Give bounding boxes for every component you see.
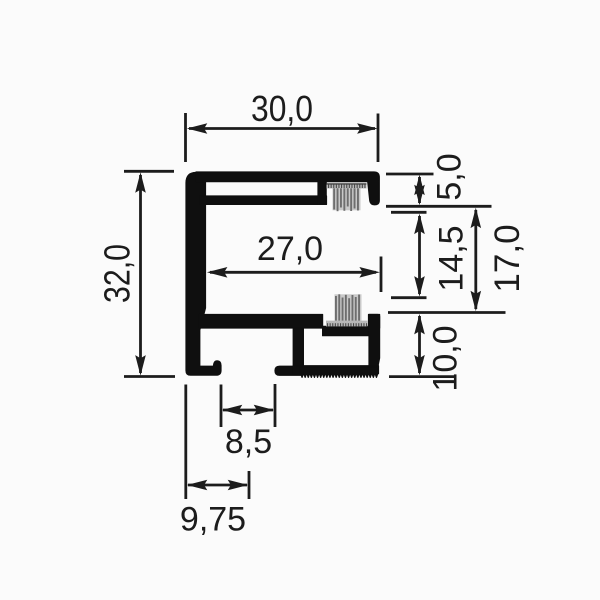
8,5 bbox=[220, 385, 223, 428]
lower serrated spring insert bbox=[326, 294, 368, 326]
17,0 bbox=[388, 311, 506, 314]
svg-text:14,5: 14,5 bbox=[433, 225, 471, 291]
10,0 bbox=[389, 375, 456, 378]
27,0 bbox=[210, 271, 376, 274]
profile left wall with bottom foot bbox=[186, 173, 221, 376]
14,5 bbox=[391, 211, 427, 214]
svg-text:30,0: 30,0 bbox=[251, 88, 313, 129]
svg-text:17,0: 17,0 bbox=[488, 224, 527, 292]
5,0 bbox=[386, 173, 434, 176]
svg-text:32,0: 32,0 bbox=[97, 244, 138, 303]
profile bottom arm bar (left segment) bbox=[200, 315, 323, 329]
32,0 bbox=[124, 170, 174, 173]
9,75 bbox=[184, 385, 187, 500]
svg-text:10,0: 10,0 bbox=[427, 325, 465, 391]
profile serrated bottom edge bbox=[301, 367, 379, 377]
upper serrated spring insert bbox=[327, 183, 367, 211]
dimension and extension lines bbox=[124, 113, 506, 499]
svg-text:9,75: 9,75 bbox=[180, 501, 246, 539]
profile box bottom band bbox=[293, 366, 378, 374]
svg-text:5,0: 5,0 bbox=[431, 153, 469, 200]
profile upper channel lip bbox=[200, 196, 327, 204]
profile top flange with right retaining hook bbox=[196, 172, 379, 205]
30,0 bbox=[184, 113, 187, 162]
aluminium profile cross-section bbox=[186, 172, 380, 377]
dimension value labels bbox=[97, 88, 528, 539]
profile box right wall bbox=[369, 315, 380, 372]
svg-text:27,0: 27,0 bbox=[257, 230, 323, 268]
profile upper spring-slot divider bbox=[318, 181, 326, 204]
profile lower spring-slot floor bbox=[323, 326, 369, 335]
profile box left wall bbox=[293, 328, 303, 366]
dimension arrowheads bbox=[135, 123, 481, 490]
svg-text:8,5: 8,5 bbox=[225, 423, 272, 461]
